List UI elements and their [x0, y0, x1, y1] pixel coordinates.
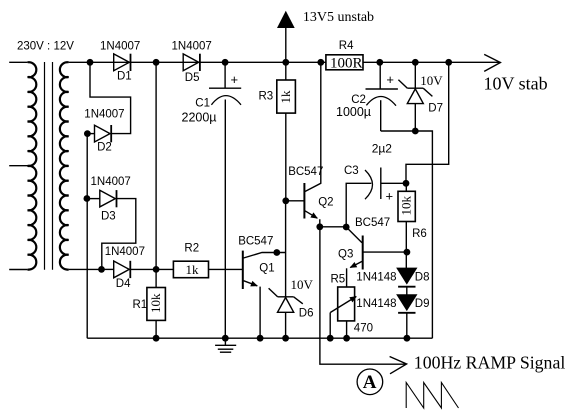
svg-text:Q2: Q2: [318, 197, 333, 209]
svg-text:+: +: [386, 189, 394, 204]
svg-text:1N4007: 1N4007: [100, 40, 140, 52]
svg-text:D4: D4: [116, 278, 131, 290]
svg-text:1N4148: 1N4148: [356, 298, 396, 310]
svg-text:BC547: BC547: [288, 166, 323, 178]
svg-text:R5: R5: [331, 274, 346, 286]
svg-text:Q3: Q3: [338, 249, 353, 261]
svg-text:1N4007: 1N4007: [172, 40, 212, 52]
svg-text:C3: C3: [344, 165, 359, 177]
svg-text:A: A: [363, 372, 377, 393]
svg-text:+: +: [386, 72, 394, 87]
svg-text:BC547: BC547: [355, 217, 390, 229]
svg-text:+: +: [231, 72, 239, 87]
svg-text:D5: D5: [185, 72, 200, 84]
svg-text:1N4007: 1N4007: [91, 176, 131, 188]
svg-text:Q1: Q1: [259, 263, 274, 275]
svg-text:R1: R1: [133, 299, 148, 311]
svg-text:R6: R6: [412, 228, 427, 240]
svg-text:1N4007: 1N4007: [84, 109, 124, 121]
svg-text:D1: D1: [117, 71, 132, 83]
svg-text:470: 470: [354, 323, 373, 335]
svg-text:10k: 10k: [148, 293, 163, 313]
svg-text:D8: D8: [415, 272, 430, 284]
svg-text:R3: R3: [259, 91, 274, 103]
svg-text:D3: D3: [101, 211, 116, 223]
svg-text:230V : 12V: 230V : 12V: [17, 41, 74, 53]
svg-text:13V5 unstab: 13V5 unstab: [303, 10, 374, 25]
svg-text:1N4148: 1N4148: [356, 272, 396, 284]
svg-text:2200µ: 2200µ: [182, 110, 217, 124]
svg-text:10V stab: 10V stab: [484, 73, 548, 93]
svg-text:R4: R4: [339, 40, 354, 52]
svg-text:D6: D6: [299, 308, 314, 320]
svg-text:D9: D9: [415, 298, 430, 310]
svg-text:BC547: BC547: [238, 236, 273, 248]
svg-text:D2: D2: [97, 142, 112, 154]
svg-text:2µ2: 2µ2: [372, 142, 393, 156]
svg-text:1000µ: 1000µ: [336, 105, 371, 119]
svg-text:1k: 1k: [278, 90, 293, 104]
svg-text:R2: R2: [184, 242, 199, 254]
svg-text:1k: 1k: [186, 262, 200, 277]
svg-text:100R: 100R: [330, 56, 363, 72]
svg-text:100Hz RAMP Signal: 100Hz RAMP Signal: [414, 353, 566, 373]
svg-text:10k: 10k: [398, 196, 413, 216]
svg-text:10V: 10V: [420, 73, 443, 88]
svg-text:1N4007: 1N4007: [105, 246, 145, 258]
svg-text:D7: D7: [428, 103, 443, 115]
svg-text:10V: 10V: [291, 277, 314, 292]
svg-text:C1: C1: [195, 98, 210, 110]
